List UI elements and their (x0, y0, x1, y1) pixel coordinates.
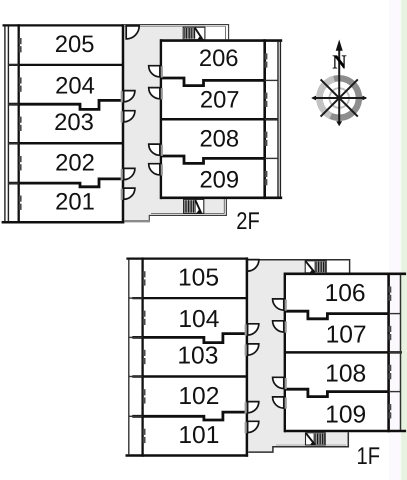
balcony outer rail 2F west (4, 26, 6, 221)
svg-text:209: 209 (199, 167, 239, 194)
wall 107/108 (285, 351, 402, 354)
svg-text:105: 105 (178, 264, 219, 291)
balcony divider east y=80.4 (265, 79, 278, 81)
party wall 208/209 (161, 156, 265, 163)
wall 103/102 (132, 375, 247, 378)
svg-text:2F: 2F (236, 208, 260, 235)
compass E arrowhead (362, 96, 367, 101)
window room 203 (19, 117, 22, 123)
staircase top 2F (183, 27, 205, 39)
corridor top landing white 1F (327, 261, 349, 274)
svg-text:108: 108 (325, 361, 366, 388)
door room 109 (284, 398, 287, 409)
right block east wall 1F (387, 273, 390, 433)
party wall 206/207 (161, 78, 265, 86)
compass W arrowhead (311, 96, 316, 101)
compass NW-SE spoke (321, 79, 358, 116)
door room 205 (126, 26, 139, 39)
door room 207 (160, 88, 163, 99)
corridor bottom-right inner line 2F (223, 199, 225, 214)
door room 102 (245, 402, 248, 413)
left block west wall 1F (141, 257, 143, 456)
right block west wall 2F (160, 39, 162, 199)
corridor bottom inner line 1F (276, 444, 346, 446)
compass N arrowhead (336, 40, 343, 51)
right block room area 1F (284, 273, 390, 433)
door room 201 (121, 189, 124, 200)
door room 203 (121, 111, 124, 122)
window room 107 (389, 326, 392, 332)
balcony outer rail 2F east (279, 42, 281, 197)
corridor top landing white 2F (205, 25, 228, 40)
balcony divider east y=119.2 (265, 118, 278, 120)
svg-text:104: 104 (178, 306, 219, 333)
window room 209 (265, 171, 268, 177)
svg-text:101: 101 (178, 422, 219, 449)
right edge lavender tint band (389, 0, 401, 480)
balcony divider east y=158.4 (389, 391, 401, 393)
right block top wall 2F (160, 39, 282, 42)
balcony divider east y=158.4 (265, 157, 278, 159)
svg-text:107: 107 (326, 322, 367, 349)
party wall 102/101 (132, 412, 247, 420)
door room 106 (284, 300, 287, 311)
door room 108 (284, 378, 287, 389)
svg-text:106: 106 (325, 280, 366, 307)
window room 101 (143, 429, 146, 435)
window room 207 (265, 93, 268, 99)
party wall 106/107 (285, 311, 389, 319)
window room 106 (389, 287, 392, 293)
right edge green tint band (401, 0, 407, 480)
right block east wall 2F (263, 39, 266, 199)
compass NE-SW spoke (321, 79, 358, 116)
staircase bottom 2F (184, 199, 204, 213)
compass inner circle (329, 88, 349, 108)
compass rose (311, 40, 367, 127)
balcony divider west y=104.2 (129, 336, 143, 338)
door room 209 (160, 164, 163, 175)
left block bottom wall 2F (2, 221, 125, 224)
staircase top 1F (305, 261, 326, 273)
left block bottom wall 1F (126, 454, 249, 457)
svg-text:206: 206 (199, 45, 239, 72)
window room 104 (143, 311, 146, 317)
compass letter N (333, 55, 347, 68)
door room 208 (160, 145, 163, 156)
compass N-S spoke (338, 49, 340, 124)
svg-text:205: 205 (55, 31, 95, 58)
wall 203/202 (8, 142, 123, 145)
door room 204 (121, 91, 124, 102)
right block west wall 1F (284, 273, 286, 433)
compass S arrowhead (336, 121, 342, 126)
svg-text:109: 109 (325, 402, 366, 429)
party wall 204/203 (8, 100, 123, 109)
window room 206 (265, 53, 268, 59)
right block room area 2F (160, 39, 266, 199)
window room 103 (143, 350, 146, 356)
terrace edge 1F west (128, 259, 130, 454)
right block top wall 1F (284, 272, 406, 275)
door room 103 (245, 345, 248, 356)
corridor outline 1F (246, 260, 350, 452)
left block top wall 2F (3, 24, 124, 26)
svg-text:201: 201 (55, 189, 95, 216)
window room 208 (265, 132, 268, 138)
corridor inner right line 2F (225, 26, 227, 40)
staircase bottom 1F (306, 433, 326, 445)
balcony divider west y=64.9 (8, 64, 18, 66)
wall 105/104 (132, 297, 247, 299)
window room 201 (19, 196, 22, 202)
left block room area 1F (141, 257, 248, 457)
corridor outline 2F (122, 25, 228, 222)
window room 205 (19, 38, 22, 44)
compass ring light segment (319, 79, 334, 116)
party wall 104/103 (132, 334, 247, 343)
svg-text:1F: 1F (357, 443, 381, 470)
terrace edge 1F east (400, 275, 402, 430)
wall 205/204 (8, 64, 123, 66)
corridor bottom-left gray edge 2F (124, 220, 150, 222)
window room 102 (143, 389, 146, 395)
balcony divider west y=183.1 (129, 415, 143, 417)
window room 105 (143, 271, 146, 277)
corridor bottom inner line 2F (151, 213, 224, 215)
party wall 202/201 (8, 179, 123, 187)
right block bottom wall 1F (284, 430, 406, 433)
svg-text:208: 208 (199, 126, 239, 153)
balcony divider east y=80.4 (389, 313, 401, 315)
left block east wall 1F (246, 257, 249, 456)
balcony divider west y=64.9 (129, 297, 143, 299)
balcony divider west y=143.3 (8, 142, 18, 144)
svg-text:203: 203 (54, 109, 94, 136)
door room 104 (245, 324, 248, 335)
window room 204 (19, 77, 22, 83)
left block east wall 2F (122, 24, 125, 223)
balcony inner rail 2F east (277, 42, 279, 197)
balcony divider west y=104.2 (8, 103, 18, 105)
compass ring (320, 78, 359, 117)
window room 108 (389, 365, 392, 371)
window room 202 (19, 156, 22, 162)
wall 207/208 (161, 118, 278, 121)
door room 107 (284, 321, 287, 332)
svg-text:204: 204 (55, 72, 95, 99)
svg-text:103: 103 (177, 342, 218, 369)
door room 101 (245, 422, 248, 433)
left block west wall 2F (18, 24, 20, 223)
door room 202 (121, 169, 124, 180)
left block top wall 1F (126, 257, 247, 259)
left block room area 2F (18, 24, 125, 224)
balcony divider east y=119.2 (389, 351, 401, 353)
balcony divider west y=143.3 (129, 376, 143, 378)
svg-text:102: 102 (178, 383, 219, 410)
window room 109 (389, 404, 392, 410)
compass E-W spoke (313, 97, 366, 99)
door room 206 (160, 66, 163, 77)
balcony divider west y=183.1 (8, 182, 18, 184)
svg-text:207: 207 (200, 87, 240, 114)
right block bottom wall 2F (160, 197, 282, 200)
svg-text:202: 202 (55, 149, 95, 176)
balcony inner rail 2F west (7, 26, 9, 221)
corridor inner top line 2F (124, 25, 226, 27)
door room 105 (247, 260, 259, 272)
party wall 108/109 (285, 389, 389, 396)
